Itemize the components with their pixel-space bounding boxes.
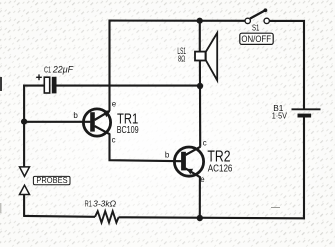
switch S1 [245,8,269,23]
svg-text:1·5V: 1·5V [272,110,288,120]
svg-text:S1: S1 [252,24,259,33]
wire right rail lower [303,118,305,220]
battery B1 [292,109,321,117]
wire capacitor to speaker node [57,85,201,87]
resistor R1 [95,211,119,222]
svg-text:PROBES: PROBES [36,176,67,185]
probe arrow down [20,167,30,177]
svg-text:c: c [112,136,116,145]
svg-text:b: b [73,111,78,120]
wire top rail left segment [110,20,246,22]
wire TR2 emitter to bottom rail [199,177,201,218]
wire left probe rail lower [23,195,25,217]
svg-text:8Ω: 8Ω [178,53,185,63]
wire speaker line upper [199,20,201,53]
svg-text:C122μF: C122μF [44,65,74,75]
junction dot TR1 base / probe rail [21,119,27,125]
wire top rail right segment and right rail upper [269,21,304,109]
label LS1 8 Ohm [177,46,186,63]
capacitor polarity plus [36,74,42,80]
wire left probe rail upper [23,85,25,167]
wire A top rail to TR1 emitter [108,20,110,111]
junction dot cap wire / speaker line [197,83,203,89]
label PROBES [33,176,70,185]
capacitor C1 [44,77,56,94]
svg-text:e: e [112,100,116,109]
transistor TR2 AC126 [174,147,203,178]
svg-text:R13-3kΩ: R13-3kΩ [85,200,116,209]
svg-text:c: c [203,139,207,148]
wire speaker to TR2 collector [199,60,201,147]
svg-text:ON/OFF: ON/OFF [241,34,271,44]
transistor TR1 BC109 [24,109,111,136]
svg-text:BC109: BC109 [117,125,139,136]
speaker LS1 [195,33,217,80]
label ON/OFF [240,33,273,44]
probe arrow up [20,185,30,194]
wire capacitor left lead [23,85,44,87]
junction dot top rail / speaker line [197,18,203,24]
wire TR1 collector to TR2 base [110,134,183,162]
svg-text:b: b [165,151,170,160]
svg-text:AC126: AC126 [208,163,233,174]
wire bottom rail right segment [119,217,305,218]
junction dot TR2 emitter / bottom rail [197,215,203,221]
wire bottom rail left segment [24,215,95,218]
label B1 1.5V [272,103,288,121]
